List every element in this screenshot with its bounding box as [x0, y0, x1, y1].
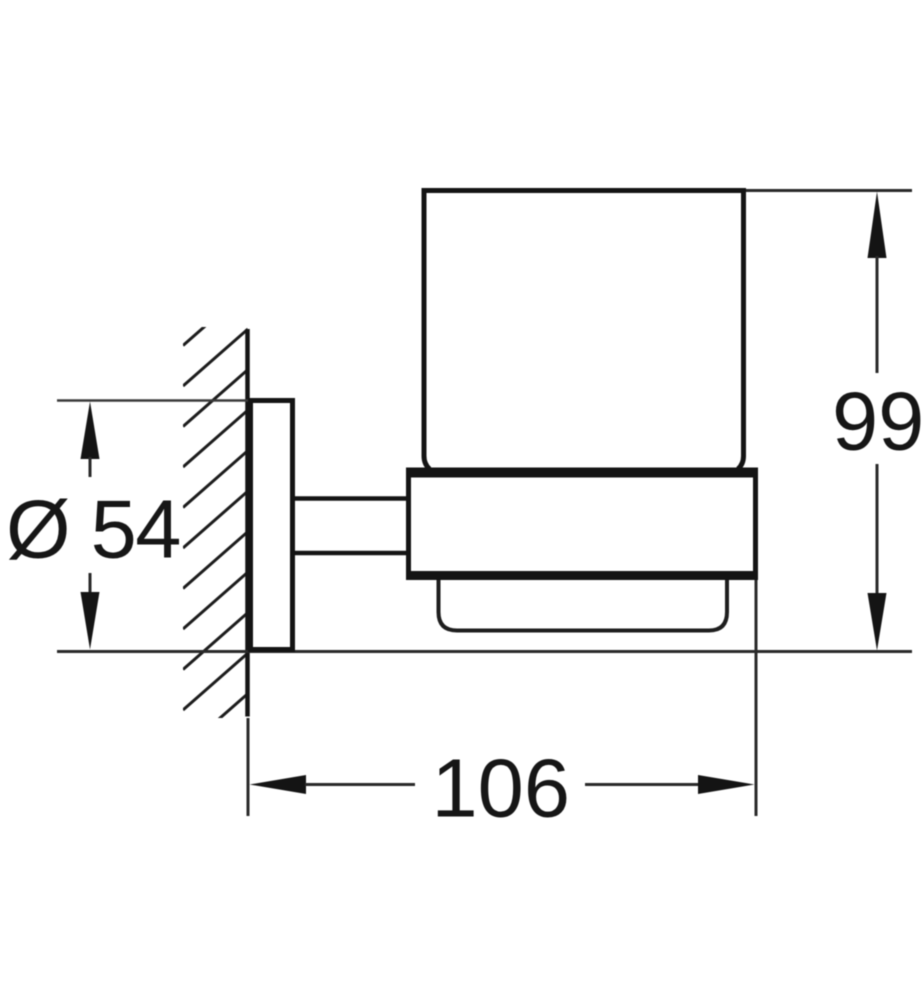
dim 106 line left — [305, 783, 415, 786]
baseline extension line — [57, 650, 912, 653]
wall line — [245, 329, 250, 717]
arm top line — [294, 496, 412, 501]
dim 99 line lower — [876, 464, 879, 594]
dim Ø54 line lower — [89, 573, 92, 595]
svg-text:106: 106 — [432, 742, 570, 835]
dim 99 arrow up — [868, 192, 887, 259]
holder bottom band — [406, 571, 758, 580]
svg-text:99: 99 — [832, 375, 924, 468]
dim 106 line right — [585, 783, 700, 786]
dim 106 arrow right — [698, 775, 755, 794]
dim 99 arrow down — [868, 593, 887, 651]
dim Ø54 line upper — [89, 457, 92, 477]
glass tumbler body — [424, 191, 744, 470]
mounting plate — [251, 401, 293, 650]
wall hatching — [183, 289, 248, 751]
arm bottom line — [294, 551, 412, 556]
dim 99 line upper — [876, 256, 879, 373]
svg-text:Ø 54: Ø 54 — [6, 483, 180, 576]
holder top band — [406, 468, 758, 478]
glass bottom below holder — [439, 574, 728, 631]
dim Ø54 arrow down — [81, 592, 100, 650]
dim Ø54 arrow up — [81, 402, 100, 460]
dim 106 arrow left — [250, 775, 307, 794]
dim extension line top of plate — [57, 399, 250, 402]
holder ring body — [409, 471, 756, 578]
dim 106 extension line right — [755, 580, 758, 816]
dim 106 extension line left — [247, 718, 250, 816]
dim 99 extension line top — [746, 189, 912, 192]
